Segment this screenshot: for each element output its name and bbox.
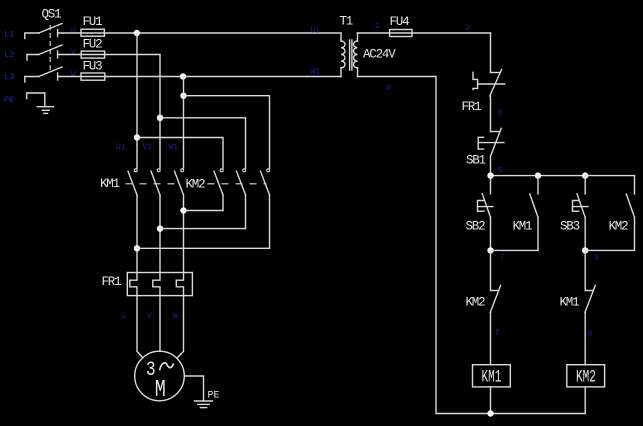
svg-text:PE: PE [4, 95, 14, 105]
wire KM1 pole1 top drop [136, 33, 138, 168]
svg-text:7: 7 [495, 329, 500, 338]
wire KM1 pole3 bottom [183, 195, 185, 273]
wire KM2 aux bottom link [585, 249, 634, 251]
coil KM2 [567, 365, 605, 388]
junction SB3/KM2 aux merge [582, 247, 588, 253]
svg-text:SB2: SB2 [466, 220, 486, 234]
thermal relay NC contact FR1 [462, 69, 505, 114]
fuse FU2 [81, 37, 104, 58]
wire KM2 pole1 bottom [222, 195, 224, 211]
fuse FU4 [390, 15, 413, 37]
wire L2 input stub [27, 55, 39, 61]
svg-text:KM2: KM2 [186, 178, 206, 192]
wire control N (secondary bottom return) [358, 77, 586, 414]
transformer T1 [340, 15, 397, 77]
svg-text:V: V [147, 312, 152, 321]
wire control drop to FR1 contact [490, 33, 492, 73]
coil KM1 [473, 365, 511, 388]
start pushbutton SB3 (NO) [560, 176, 588, 251]
svg-text:FR1: FR1 [102, 275, 122, 289]
wire to KM1 interlock [584, 250, 586, 290]
wire cross-connect KM2 pole1 to motor W [184, 210, 224, 212]
wire KM1 pole2 top drop [159, 55, 161, 169]
junction motor U / KM2 pole3 [134, 245, 140, 251]
junction bus / KM1 aux [535, 172, 541, 178]
interlock contact KM2 (NC) [466, 285, 501, 312]
svg-text:U1: U1 [311, 27, 321, 36]
svg-text:PE: PE [208, 391, 220, 402]
wire L3 input stub [25, 77, 39, 83]
svg-text:0: 0 [386, 84, 391, 93]
ground PE (motor) [195, 391, 220, 408]
svg-text:U: U [71, 27, 76, 36]
wire KM1 aux bottom link [491, 249, 539, 251]
svg-text:KM1: KM1 [560, 296, 580, 310]
svg-text:U: U [121, 312, 126, 321]
fuse FU3 [81, 59, 105, 80]
fuse FU1 [81, 15, 104, 36]
wire KM2 pole1 feed [137, 138, 223, 169]
wire L1 input stub [25, 33, 39, 39]
wire KM2 pole3 bottom [269, 195, 271, 248]
svg-text:QS1: QS1 [42, 8, 62, 22]
svg-text:KM1: KM1 [482, 368, 502, 387]
wire KM1 pole2 bottom [159, 195, 161, 273]
junction pole3 drop / KM2 pole3 feed [180, 93, 186, 99]
svg-text:T1: T1 [340, 15, 353, 29]
svg-text:5: 5 [498, 167, 503, 176]
svg-text:1: 1 [375, 22, 380, 31]
svg-text:SB1: SB1 [466, 154, 486, 168]
contactor KM2 main contacts [186, 169, 270, 195]
svg-text:KM2: KM2 [576, 368, 596, 387]
junction pole1 drop / KM2 pole1 feed [134, 134, 140, 140]
junction row L3 / KM1 pole3 drop [180, 73, 186, 79]
auxiliary contact KM1 (NO, seal-in) [513, 176, 539, 251]
wire motor lead W [177, 296, 184, 359]
svg-text:FU2: FU2 [83, 37, 103, 51]
wire motor lead V [159, 296, 161, 352]
wire KM1 pole1 bottom [136, 195, 138, 273]
junction pole2 drop / KM2 pole2 feed [157, 115, 163, 121]
junction bus / SB2 [487, 172, 493, 178]
wire motor PE [184, 376, 203, 401]
stop pushbutton SB1 (NC) [466, 128, 504, 167]
ground PE (incoming supply) [27, 93, 54, 113]
junction motor W / KM2 pole1 [180, 207, 186, 213]
svg-text:SB3: SB3 [560, 220, 580, 234]
junction bus / SB3 [582, 172, 588, 178]
wire KM2 interlock to coil KM1 [490, 312, 492, 364]
wire FR1 to SB1 [490, 96, 492, 132]
svg-text:7: 7 [500, 254, 505, 263]
wire to KM2 interlock [490, 250, 492, 290]
junction motor V / KM2 pole2 [157, 225, 163, 231]
svg-text:L3: L3 [4, 72, 14, 82]
svg-text:AC24V: AC24V [363, 48, 396, 62]
svg-text:W1: W1 [311, 68, 321, 77]
wire row L2 (QS1 to KM1 pole2 drop) [58, 54, 160, 56]
svg-text:M: M [155, 375, 166, 403]
auxiliary contact KM2 (NO, seal-in) [609, 176, 635, 251]
svg-text:KM2: KM2 [466, 296, 486, 310]
svg-text:V: V [71, 49, 76, 58]
svg-text:8: 8 [588, 330, 593, 339]
svg-text:2: 2 [466, 24, 471, 33]
wire KM1 interlock to coil KM2 [584, 312, 586, 364]
wire KM2 pole2 bottom [245, 195, 247, 229]
interlock contact KM1 (NC) [560, 285, 596, 312]
svg-text:FU4: FU4 [390, 15, 410, 29]
wire cross-connect KM2 pole3 to motor U [137, 247, 270, 249]
junction coil KM1 / return [487, 410, 493, 416]
wire SB1 to bus [490, 156, 492, 176]
svg-text:KM1: KM1 [100, 177, 120, 191]
junction SB2/KM1 aux merge [487, 247, 493, 253]
svg-text:KM2: KM2 [609, 220, 629, 234]
svg-text:V1: V1 [143, 143, 153, 152]
wire control L (secondary top) [358, 32, 491, 34]
wire motor lead U [137, 296, 143, 358]
wire KM1 pole3 top drop [183, 77, 185, 169]
thermal overload relay FR1 (heater element) [102, 273, 193, 296]
wire row L1 (QS1 to transformer) [58, 32, 341, 34]
disconnect switch QS1 [39, 8, 62, 81]
svg-text:FU1: FU1 [83, 15, 103, 29]
contactor KM1 main contacts [100, 169, 184, 195]
wire KM2 pole3 feed [184, 96, 270, 168]
svg-text:FR1: FR1 [462, 100, 482, 114]
svg-text:L1: L1 [4, 30, 14, 40]
svg-text:L2: L2 [4, 50, 14, 60]
svg-text:U1: U1 [116, 143, 126, 152]
svg-text:FU3: FU3 [83, 59, 103, 73]
start pushbutton SB2 (NO) [466, 176, 494, 251]
svg-text:9: 9 [594, 254, 599, 263]
svg-text:KM1: KM1 [513, 220, 533, 234]
motor M (3-phase) [135, 351, 185, 404]
junction row L1 / KM1 pole1 drop [134, 30, 140, 36]
wire control bus [491, 175, 635, 177]
svg-text:W: W [173, 312, 178, 321]
wire row L3 (QS1 to transformer) [58, 76, 341, 78]
wire cross-connect KM2 pole2 to motor V [160, 228, 246, 230]
svg-text:W1: W1 [169, 143, 179, 152]
svg-text:W: W [71, 71, 76, 80]
wire KM2 pole2 feed [160, 118, 246, 168]
wire coil KM2 to return [584, 387, 586, 414]
svg-text:3: 3 [497, 109, 502, 118]
wire coil KM1 to return [490, 387, 492, 414]
